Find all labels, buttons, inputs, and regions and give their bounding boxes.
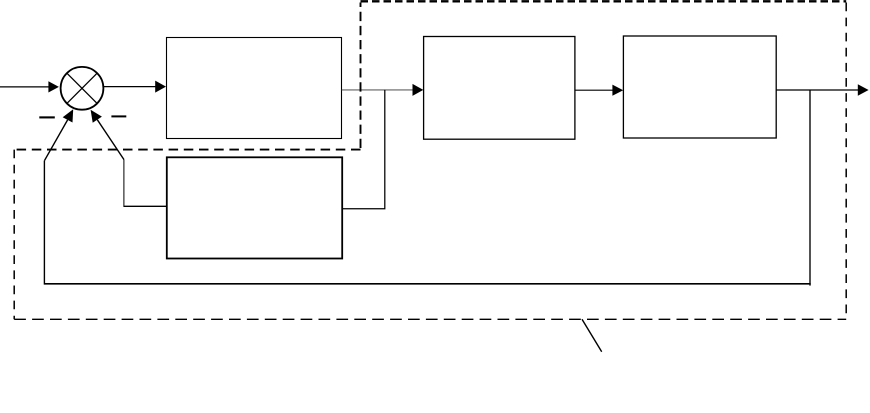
- block G1 controller: [167, 38, 342, 139]
- wire outer feedback bottom run: [45, 283, 811, 285]
- dashed system boundary mid vertical: [360, 3, 362, 150]
- summing junction S1: [61, 67, 104, 110]
- minus sign left: [39, 116, 55, 118]
- dashed system boundary top edge: [361, 0, 847, 2]
- wire output Y(s): [776, 84, 868, 96]
- node tap wire to feedback block H1: [342, 90, 385, 209]
- wire outer feedback left riser: [43, 161, 45, 285]
- wire block G2 to block G3: [575, 85, 623, 96]
- wire input R(s): [0, 81, 59, 92]
- block G2: [424, 37, 575, 140]
- dashed system boundary right edge: [845, 3, 847, 320]
- wire summing junction to block G1: [104, 81, 167, 93]
- dashed system boundary left edge: [13, 150, 15, 320]
- node output tap vertical to outer feedback: [809, 90, 811, 286]
- wire outer feedback diagonal into summing junction: [44, 109, 73, 160]
- callout leader line: [582, 319, 602, 351]
- dashed system boundary mid horizontal: [14, 149, 360, 151]
- wire block G1 to block G2 (gray): [342, 84, 424, 96]
- block G3: [623, 36, 776, 138]
- minus sign right: [111, 115, 126, 117]
- wire inner feedback diagonal into summing junction: [91, 110, 124, 160]
- dashed system boundary bottom edge: [14, 318, 846, 320]
- block H1 feedback: [167, 157, 342, 258]
- wire block H1 output run: [124, 160, 167, 208]
